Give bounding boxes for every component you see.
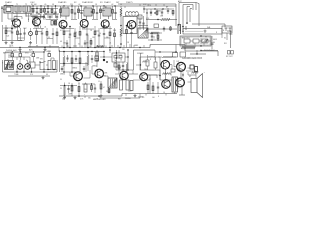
- svg-text:OUT: OUT: [176, 61, 179, 63]
- svg-text:2SB56: 2SB56: [125, 98, 131, 100]
- label mid row: [6, 36, 109, 40]
- label audio values: [60, 79, 105, 91]
- resistor R20: [120, 25, 122, 44]
- capacitor C14: [69, 26, 71, 47]
- svg-text:680: 680: [86, 43, 89, 45]
- capacitor C51: [42, 14, 44, 20]
- svg-text:+: +: [84, 94, 85, 96]
- box small det: [138, 15, 142, 19]
- resistor R16: [63, 26, 65, 47]
- wire jumper y38: [18, 37, 111, 40]
- svg-text:S2: S2: [224, 38, 226, 40]
- svg-text:TONE: TONE: [14, 74, 18, 76]
- resistor R49: [147, 82, 149, 94]
- capacitor C64: [75, 55, 77, 62]
- wire driver links: [125, 57, 146, 66]
- wire x116 upper: [116, 50, 117, 62]
- IF transformer T5: [103, 8, 111, 16]
- capacitor C62: [161, 9, 163, 16]
- resistor R21: [126, 25, 128, 44]
- wire y70 link: [116, 69, 134, 70]
- svg-text:50: 50: [60, 79, 62, 81]
- resistor R4: [51, 6, 53, 18]
- dial inner line: [185, 30, 203, 32]
- electrolytic pair A: [51, 21, 57, 26]
- junction dots audio: [63, 51, 100, 97]
- label values top3: [120, 4, 161, 12]
- resistor R40: [60, 6, 62, 18]
- wire stub row: [10, 44, 130, 48]
- resistor R5: [71, 6, 73, 19]
- wire y57 link: [100, 56, 112, 57]
- capacitor C3: [54, 6, 56, 18]
- wire box drops: [17, 12, 41, 19]
- wire q11 q12: [180, 71, 182, 78]
- transistor Q14: [161, 60, 170, 69]
- wire antenna lead: [1, 6, 3, 22]
- transformer T6: [138, 28, 148, 38]
- wire right audio links: [146, 70, 160, 80]
- label right mid2: [205, 32, 218, 38]
- box component: [29, 62, 35, 68]
- capacitor C54: [150, 9, 152, 16]
- resistor R13: [17, 25, 19, 40]
- wire top supply bus: [4, 5, 176, 7]
- resistor R6: [78, 6, 80, 19]
- svg-text:UM-3: UM-3: [213, 39, 217, 41]
- wire y24 long: [192, 24, 225, 27]
- wire T6 top: [138, 26, 148, 29]
- wire antenna drop: [8, 13, 16, 19]
- wire left gnd link: [18, 40, 25, 42]
- electrolytic C21: [120, 80, 123, 90]
- svg-text:PHONE JACK: PHONE JACK: [6, 49, 18, 52]
- cb area wires: [190, 50, 218, 55]
- wire vert: [87, 35, 89, 48]
- resistor R50: [152, 82, 154, 94]
- resistor R46: [118, 62, 120, 74]
- label bottom mid: [96, 91, 165, 101]
- capacitor C68: [151, 33, 153, 40]
- capacitor C66: [84, 40, 86, 48]
- wire bottom ext: [160, 92, 177, 94]
- resistor R41: [156, 9, 158, 16]
- transistor Q11: [177, 62, 186, 71]
- ground G2: [11, 41, 14, 44]
- resistor R26: [79, 52, 81, 73]
- wire q11 feed: [174, 60, 177, 67]
- wire audio right rail: [150, 50, 155, 94]
- wire bl links: [8, 57, 54, 65]
- oscillator coil T1: [15, 6, 21, 12]
- resistor R53: [91, 84, 93, 92]
- capacitor C2: [47, 6, 49, 18]
- svg-text:DET: DET: [116, 2, 119, 4]
- dial scale box: [183, 29, 222, 35]
- label values top1: [31, 4, 55, 6]
- capacitor C56: [19, 28, 21, 40]
- ground G10: [44, 48, 47, 51]
- wire right edge col: [227, 31, 231, 48]
- capacitor C41: [23, 28, 25, 40]
- svg-text:47: 47: [103, 87, 105, 89]
- resistor R31: [71, 83, 73, 96]
- bl more wires: [14, 52, 45, 66]
- svg-text:.01: .01: [109, 43, 111, 45]
- capacitor C65: [66, 40, 68, 48]
- resistor R24: [63, 52, 65, 73]
- resistor R9: [112, 6, 114, 19]
- text smudge row1: [137, 53, 155, 59]
- svg-text:2SB54: 2SB54: [72, 68, 77, 70]
- speaker area wires: [178, 70, 197, 75]
- wire audio interconnect: [64, 70, 108, 78]
- svg-text:+: +: [182, 45, 183, 47]
- label dial: [207, 26, 211, 29]
- junction dots bus: [19, 47, 140, 48]
- wire q10 t8: [146, 75, 157, 78]
- svg-text:S: S: [26, 60, 27, 62]
- svg-text:.05: .05: [44, 4, 46, 6]
- label left mid: [3, 27, 46, 31]
- wire bus ticks3: [65, 94, 166, 99]
- resistor R7: [93, 6, 95, 19]
- resistor R43: [56, 28, 58, 44]
- wire x86 vert: [85, 62, 87, 72]
- transistor Q7: [74, 72, 83, 81]
- terminal T lug1: [225, 28, 228, 31]
- box small th: [114, 63, 117, 67]
- junction blob: [103, 59, 108, 63]
- dots audio tops: [78, 49, 128, 52]
- wire bottom-left bus: [3, 60, 58, 72]
- capacitor C1: [36, 6, 38, 18]
- IF transformer T4: [84, 8, 92, 16]
- capacitor C70: [83, 66, 85, 72]
- label plus: [204, 72, 206, 74]
- label top row extra: [5, 4, 29, 21]
- capacitor C20: [96, 50, 98, 67]
- transistor Q4: [80, 19, 88, 27]
- electrolytic C60: [84, 83, 87, 93]
- resistor R33: [100, 81, 102, 94]
- wire q2 base: [32, 17, 37, 23]
- dots tile G tops: [120, 25, 132, 27]
- wire det out: [148, 32, 160, 33]
- resistor R17: [79, 26, 81, 47]
- svg-text:150: 150: [68, 37, 71, 39]
- wire y13 dots: [146, 12, 155, 13]
- ground G7: [100, 94, 103, 97]
- svg-text:100: 100: [152, 97, 155, 99]
- transistor Q3: [59, 20, 67, 28]
- transistor Q12: [176, 78, 185, 87]
- wire mid bus: [0, 47, 150, 49]
- label q labels top: [14, 26, 129, 30]
- label mid values: [60, 30, 117, 35]
- label top right: [178, 0, 182, 3]
- tick marks bus: [140, 4, 164, 6]
- wire q1 base: [11, 13, 16, 22]
- capacitor C63: [66, 55, 68, 62]
- wire y40 seg: [148, 39, 162, 40]
- transistor Q9: [120, 71, 128, 79]
- label right top: [146, 16, 164, 21]
- wire link row y28: [4, 28, 112, 29]
- resistor R3: [44, 6, 46, 18]
- resistor R15: [46, 28, 48, 44]
- svg-text:VOL: VOL: [30, 74, 33, 76]
- resistor R25: [71, 52, 73, 73]
- capacitor C71: [67, 85, 69, 93]
- wire bottom-left vert: [2, 60, 4, 72]
- bl labels2: [6, 49, 40, 60]
- label more vals: [122, 45, 151, 51]
- terminal rects: [190, 65, 198, 72]
- wire y8.5 link: [31, 8, 58, 9]
- label q7 area: [60, 88, 85, 96]
- resistor R18: [94, 26, 96, 47]
- svg-text:IF2: IF2: [74, 2, 76, 4]
- svg-text:L1: L1: [5, 4, 7, 6]
- electrolytic C67: [130, 81, 133, 91]
- svg-text:IF3: IF3: [100, 2, 102, 4]
- junction dots top bus: [32, 5, 115, 6]
- label bottom row2: [68, 94, 159, 101]
- wire audio left edge: [59, 50, 61, 72]
- ground G6: [63, 96, 66, 99]
- box right small: [222, 26, 232, 33]
- capacitor C50: [34, 14, 36, 20]
- wire hook inner2: [190, 9, 192, 23]
- wire lower shelf left: [28, 46, 59, 48]
- terminal rects bold: [190, 65, 198, 72]
- ground G9: [19, 48, 22, 51]
- zigzag R48: [158, 56, 176, 58]
- wire q7 row: [60, 85, 77, 86]
- resistor R2: [40, 6, 42, 18]
- wire left shelf: [2, 25, 22, 41]
- resistor R55: [157, 33, 159, 40]
- resistor R10: [120, 6, 122, 25]
- ferrite hatch2: [10, 62, 13, 68]
- svg-text:220: 220: [122, 49, 125, 51]
- resistor R30: [63, 83, 65, 97]
- resistor R14: [36, 28, 38, 44]
- svg-text:J: J: [30, 55, 31, 57]
- bl top wire: [5, 51, 45, 60]
- label bl mid: [14, 74, 49, 76]
- label top mid: [64, 2, 119, 4]
- label values top2: [70, 4, 113, 6]
- capacitor C69: [61, 66, 63, 72]
- capacitor C57: [98, 28, 100, 47]
- label bus row: [10, 45, 99, 47]
- resistor R47: [154, 57, 157, 70]
- wire emitters: [79, 78, 142, 84]
- svg-text:R1 10K: R1 10K: [31, 4, 38, 6]
- svg-text:T1: T1: [16, 4, 18, 6]
- svg-text:VOL: VOL: [146, 18, 149, 20]
- ferrite antenna L4: [5, 61, 14, 70]
- hook feet: [179, 26, 186, 32]
- transistor Q2: [33, 18, 41, 26]
- wire speaker gnd: [179, 87, 185, 96]
- wire right link: [177, 45, 218, 57]
- ground G5: [29, 41, 32, 44]
- connector rects: [173, 51, 234, 58]
- svg-text:2SB54: 2SB54: [60, 74, 65, 76]
- svg-text:10: 10: [99, 33, 101, 35]
- capacitor C7: [114, 6, 116, 19]
- svg-text:X4: X4: [213, 42, 215, 44]
- wire top link bl: [8, 57, 30, 60]
- svg-text:.02: .02: [78, 4, 80, 6]
- resistor R34: [108, 88, 110, 94]
- svg-text:8: 8: [158, 96, 159, 98]
- wire loop middle: [183, 5, 193, 29]
- label long bottom: [93, 97, 144, 101]
- wire q1 mesh: [14, 17, 22, 20]
- capacitor C4: [74, 6, 76, 19]
- svg-text:2SB54: 2SB54: [92, 66, 97, 68]
- capacitor C17: [130, 25, 132, 44]
- svg-text:+: +: [50, 59, 51, 61]
- transistor Q8: [95, 69, 104, 78]
- resistor R52: [54, 20, 56, 25]
- capacitor C8: [139, 16, 141, 30]
- svg-text:50: 50: [78, 44, 80, 46]
- transistor Q1: [13, 19, 21, 27]
- svg-text:SW1: SW1: [25, 53, 29, 55]
- battery inner border: [181, 37, 210, 45]
- wire q14 q13: [165, 69, 167, 80]
- resistor R1: [32, 6, 34, 18]
- resistor R45: [114, 28, 116, 47]
- svg-text:IF1: IF1: [64, 2, 66, 4]
- bl wire mesh: [5, 65, 45, 73]
- wire detector rail2: [146, 26, 177, 32]
- svg-text:T4: T4: [104, 7, 106, 9]
- svg-text:AVC: AVC: [29, 49, 34, 52]
- svg-text:500MW: 500MW: [138, 97, 144, 99]
- bl top comps: [11, 54, 35, 63]
- svg-text:C20: C20: [148, 5, 151, 7]
- svg-text:DRIVER: DRIVER: [142, 62, 149, 64]
- capacitor C55: [167, 8, 169, 14]
- wire loop inner: [187, 7, 190, 25]
- svg-text:SP: SP: [189, 76, 191, 78]
- svg-text:.02: .02: [111, 4, 113, 6]
- svg-text:2T: 2T: [42, 11, 44, 13]
- resistor R28: [146, 55, 149, 70]
- capacitor C16: [103, 26, 105, 47]
- resistor R23: [48, 51, 51, 57]
- coil L2: [126, 11, 139, 16]
- junction dots mid: [63, 25, 122, 48]
- label battery: [213, 39, 217, 44]
- wire string link1: [31, 6, 44, 17]
- battery box B1: [180, 36, 211, 46]
- wire jumper y31: [6, 30, 99, 33]
- capacitor C13: [52, 28, 54, 44]
- label driver vals: [120, 59, 152, 62]
- wire battery drop: [211, 36, 214, 49]
- svg-text:PM DYNAMIC: PM DYNAMIC: [204, 49, 216, 52]
- wire bl lower line: [8, 75, 50, 77]
- wire box drop: [226, 33, 228, 40]
- svg-text:100MF: 100MF: [46, 51, 51, 53]
- label q labels bottom: [72, 66, 121, 70]
- box small right: [171, 69, 175, 72]
- label if cans: [62, 7, 106, 9]
- label right small: [226, 56, 234, 58]
- coil L2b: [126, 15, 139, 17]
- coil L3: [181, 46, 195, 49]
- label cardboard2: [204, 49, 216, 52]
- wire out top: [133, 78, 172, 82]
- driver box outline: [140, 57, 160, 70]
- box marks T1T2: [17, 8, 29, 10]
- svg-text:220: 220: [70, 4, 73, 6]
- resistor R19: [109, 26, 111, 47]
- svg-text:2SB75: 2SB75: [126, 2, 133, 4]
- terminal strip bars: [178, 24, 181, 34]
- svg-text:E: E: [2, 63, 3, 65]
- wire bus stubs: [68, 6, 125, 8]
- svg-text:2-18: 2-18: [6, 36, 9, 38]
- wire x160 vert: [159, 70, 161, 80]
- hatch T7 fill: [108, 78, 116, 87]
- label audio: [125, 69, 148, 100]
- capacitor C59: [122, 62, 124, 70]
- resistor R54: [90, 38, 92, 48]
- wire audio bottom bus: [59, 94, 160, 97]
- wire batt links: [190, 35, 211, 46]
- bus step seg: [100, 94, 140, 99]
- IF transformer T3: [61, 8, 69, 16]
- wire second top bus: [118, 4, 176, 26]
- audio mid wire: [60, 63, 88, 64]
- capacitor C40: [91, 8, 93, 16]
- bl second bus: [40, 69, 57, 70]
- transistor Q10: [140, 73, 148, 81]
- svg-text:DRIVER: DRIVER: [137, 53, 144, 55]
- junction dots row2: [30, 13, 54, 14]
- wire q2 mesh: [36, 17, 45, 20]
- trimmer capacitor C11: [29, 28, 33, 40]
- wire audio top links: [95, 50, 119, 57]
- vertical link x28: [28, 14, 30, 23]
- label top left more: [3, 8, 44, 13]
- wire jumpers top: [71, 11, 117, 20]
- electrolytic C18: [48, 61, 51, 70]
- coil L6: [162, 73, 171, 75]
- label bottom left: [8, 55, 31, 57]
- ground G3: [42, 76, 45, 79]
- capacitor C58: [91, 55, 93, 63]
- electrolytic C19: [53, 61, 56, 70]
- svg-text:10MF: 10MF: [134, 45, 138, 47]
- wire loop outer: [179, 3, 196, 27]
- box dark stack: [95, 56, 99, 61]
- svg-text:T2: T2: [62, 7, 64, 9]
- svg-text:MATCHED PAIR: MATCHED PAIR: [93, 98, 106, 100]
- svg-text:25MF: 25MF: [68, 94, 72, 96]
- wire out trans link: [178, 80, 180, 88]
- ground G1: [5, 41, 8, 44]
- wire shelf right: [45, 13, 59, 15]
